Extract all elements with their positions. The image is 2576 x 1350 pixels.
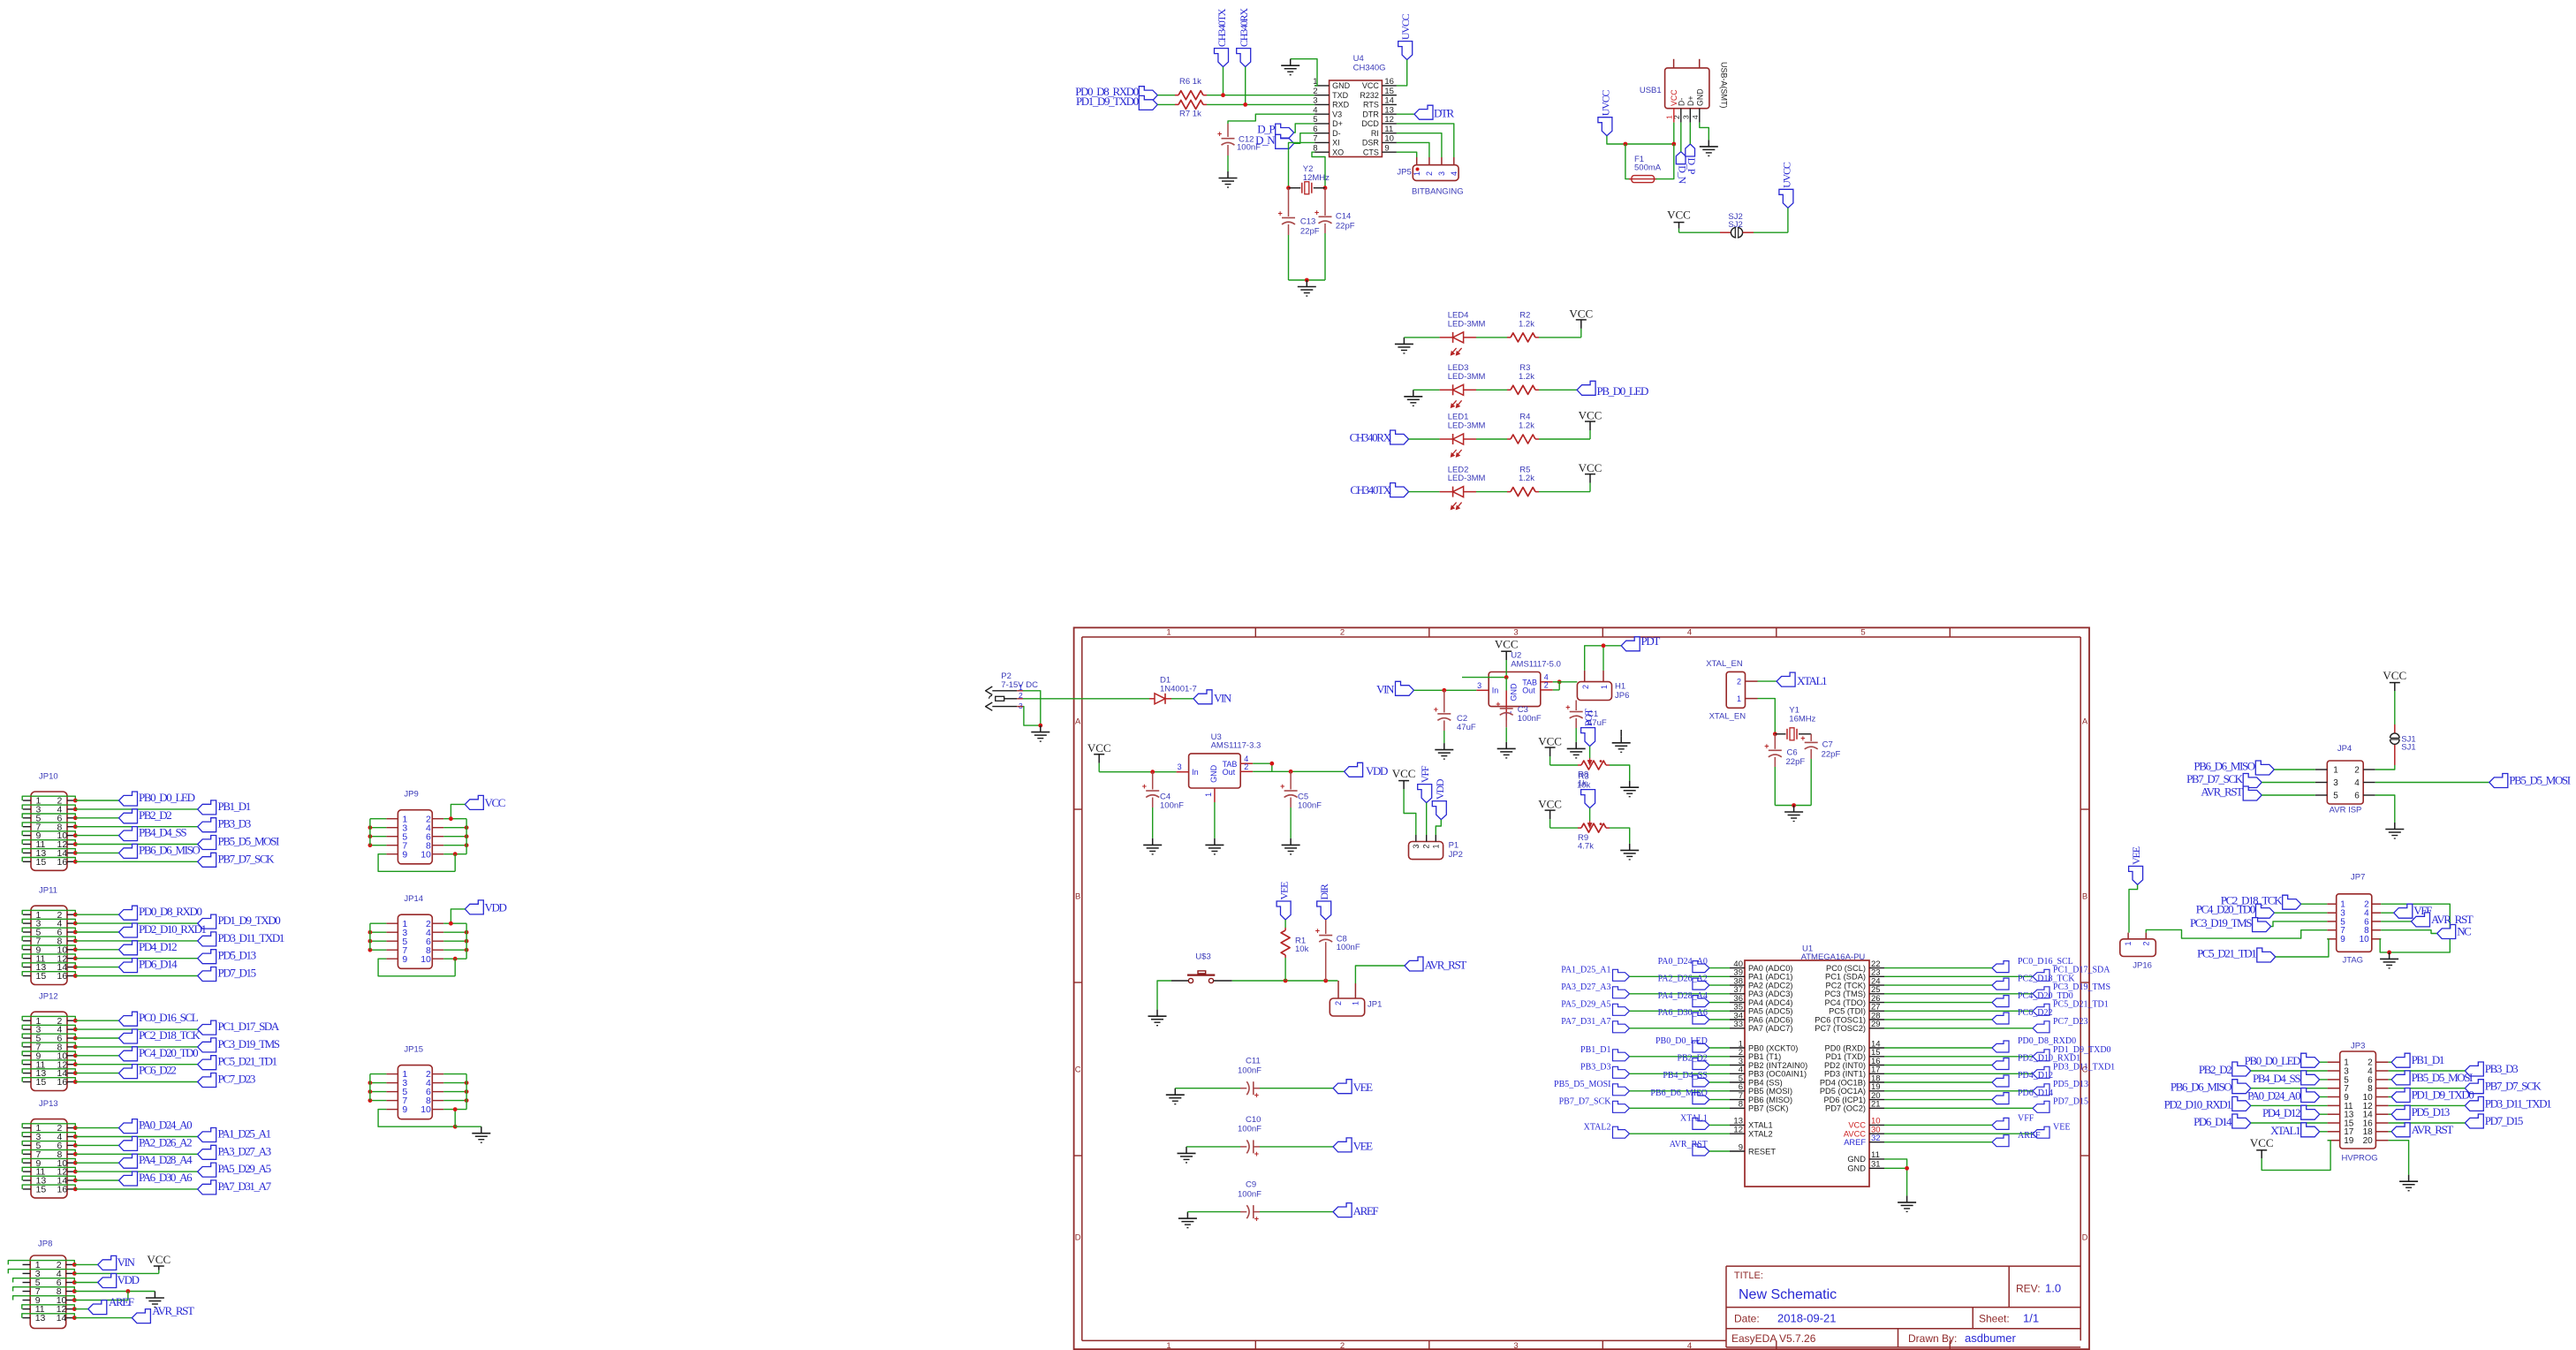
svg-text:VCC: VCC [1087, 741, 1111, 755]
svg-text:PA5_D29_A5: PA5_D29_A5 [1561, 1000, 1610, 1010]
svg-text:2: 2 [1244, 762, 1248, 771]
svg-text:JP15: JP15 [404, 1045, 423, 1055]
svg-text:9: 9 [402, 954, 407, 965]
svg-text:GND: GND [1332, 81, 1351, 90]
svg-text:PB0_D0_LED: PB0_D0_LED [139, 791, 195, 804]
svg-text:PB1_D1: PB1_D1 [218, 800, 251, 813]
svg-text:VDD: VDD [1434, 778, 1446, 800]
svg-text:PC6 (TOSC1): PC6 (TOSC1) [1815, 1015, 1866, 1024]
svg-text:PA2_D26_A2: PA2_D26_A2 [139, 1135, 192, 1149]
svg-text:B: B [1075, 892, 1080, 902]
svg-text:+: + [1254, 1149, 1259, 1158]
svg-text:VIN: VIN [1214, 691, 1232, 704]
svg-text:15: 15 [1384, 87, 1394, 96]
svg-text:GND: GND [1209, 764, 1218, 783]
svg-text:PB3 (OC0AIN1): PB3 (OC0AIN1) [1748, 1070, 1807, 1079]
svg-text:PD6_D14: PD6_D14 [2193, 1115, 2232, 1128]
svg-text:PD2_D10_RXD1: PD2_D10_RXD1 [139, 922, 207, 936]
svg-text:D_N: D_N [1255, 133, 1276, 147]
svg-text:1: 1 [1413, 171, 1421, 176]
svg-text:PB6_D6_MISO: PB6_D6_MISO [2193, 760, 2254, 773]
svg-text:XTAL2: XTAL2 [1584, 1122, 1611, 1132]
svg-text:PD6_D14: PD6_D14 [2018, 1088, 2053, 1098]
svg-text:LED-3MM: LED-3MM [1448, 320, 1486, 330]
svg-text:6: 6 [2354, 791, 2360, 800]
svg-text:3: 3 [1178, 762, 1182, 771]
svg-text:PC5_D21_TD1: PC5_D21_TD1 [2053, 1000, 2109, 1010]
svg-text:PD4_D12: PD4_D12 [2262, 1106, 2300, 1119]
svg-text:New Schematic: New Schematic [1739, 1287, 1837, 1302]
svg-text:XTAL1: XTAL1 [1797, 674, 1827, 687]
svg-text:VCC: VCC [1538, 798, 1562, 811]
svg-text:PA3 (ADC3): PA3 (ADC3) [1748, 990, 1792, 998]
svg-text:XTAL1: XTAL1 [2270, 1124, 2300, 1137]
svg-text:BITBANGING: BITBANGING [1412, 187, 1464, 197]
svg-text:TXD: TXD [1332, 91, 1349, 100]
svg-text:PDT: PDT [1641, 634, 1661, 648]
svg-text:HVPROG: HVPROG [2342, 1154, 2378, 1164]
svg-text:D_P: D_P [1686, 158, 1698, 175]
svg-text:PD7 (OC2): PD7 (OC2) [1825, 1104, 1866, 1113]
svg-text:VFF: VFF [2018, 1114, 2034, 1124]
svg-text:D: D [1075, 1233, 1081, 1243]
svg-text:TITLE:: TITLE: [1734, 1270, 1763, 1281]
svg-text:PB7_D7_SCK: PB7_D7_SCK [218, 852, 276, 865]
svg-text:PB7 (SCK): PB7 (SCK) [1748, 1104, 1788, 1113]
svg-text:2018-09-21: 2018-09-21 [1777, 1312, 1837, 1325]
svg-text:2: 2 [2354, 765, 2360, 775]
svg-text:PA0_D24_A0: PA0_D24_A0 [139, 1119, 192, 1132]
svg-text:PA4_D28_A4: PA4_D28_A4 [1658, 991, 1708, 1001]
svg-text:PB3_D3: PB3_D3 [218, 817, 251, 830]
svg-text:10: 10 [1384, 134, 1394, 144]
svg-text:JP1: JP1 [1368, 999, 1382, 1009]
svg-text:PA1_D25_A1: PA1_D25_A1 [218, 1127, 271, 1141]
svg-text:3: 3 [1477, 681, 1481, 690]
svg-text:PD7_D15: PD7_D15 [2485, 1114, 2523, 1127]
svg-text:CH340TX: CH340TX [1350, 483, 1391, 497]
svg-text:JP5: JP5 [1397, 168, 1411, 178]
svg-text:CH340G: CH340G [1353, 64, 1386, 73]
svg-text:PB2_D2: PB2_D2 [1677, 1054, 1707, 1064]
svg-text:100nF: 100nF [1337, 943, 1360, 952]
svg-text:VCC: VCC [1569, 307, 1593, 320]
svg-text:LED-3MM: LED-3MM [1448, 421, 1486, 431]
svg-text:D+: D+ [1332, 119, 1343, 128]
svg-text:32: 32 [1871, 1134, 1881, 1143]
svg-text:VCC: VCC [1579, 461, 1602, 474]
svg-text:4: 4 [2354, 778, 2360, 788]
svg-text:2: 2 [1425, 171, 1434, 176]
svg-text:VCC: VCC [147, 1253, 170, 1266]
svg-text:4: 4 [1687, 627, 1692, 637]
svg-text:2: 2 [1340, 1341, 1345, 1350]
svg-text:PB4_D4_SS: PB4_D4_SS [2253, 1072, 2300, 1085]
svg-text:10: 10 [420, 849, 431, 860]
svg-text:PA1_D25_A1: PA1_D25_A1 [1561, 966, 1610, 975]
svg-text:12: 12 [1733, 1126, 1743, 1135]
svg-text:PA7 (ADC7): PA7 (ADC7) [1748, 1024, 1792, 1033]
svg-text:AVR_RST: AVR_RST [1670, 1140, 1708, 1149]
svg-text:3: 3 [1513, 627, 1518, 637]
svg-text:16: 16 [57, 1185, 68, 1195]
svg-text:XTAL_EN: XTAL_EN [1709, 712, 1746, 722]
svg-text:1: 1 [1166, 627, 1171, 637]
svg-text:GND: GND [1847, 1164, 1866, 1173]
svg-text:100nF: 100nF [1238, 1125, 1261, 1134]
svg-text:15: 15 [36, 971, 47, 982]
svg-text:4: 4 [1691, 115, 1700, 119]
svg-text:JP16: JP16 [2133, 961, 2152, 971]
svg-text:DTR: DTR [1434, 106, 1455, 119]
svg-text:+: + [1764, 741, 1769, 750]
svg-text:PD2_D10_RXD1: PD2_D10_RXD1 [2164, 1097, 2232, 1111]
svg-text:PC2 (TCK): PC2 (TCK) [1826, 981, 1866, 990]
svg-text:16: 16 [57, 857, 68, 868]
svg-text:1: 1 [2124, 941, 2133, 945]
svg-text:C13: C13 [1300, 216, 1315, 226]
svg-text:PC7_D23: PC7_D23 [218, 1073, 255, 1086]
svg-text:AVR_RST: AVR_RST [2201, 785, 2243, 799]
svg-text:1N4001-7: 1N4001-7 [1160, 685, 1197, 694]
svg-text:2: 2 [1334, 1001, 1343, 1005]
svg-text:5: 5 [2333, 791, 2338, 800]
svg-text:3: 3 [2333, 778, 2338, 788]
svg-text:AREF: AREF [109, 1295, 134, 1308]
svg-text:PC5_D21_TD1: PC5_D21_TD1 [2197, 947, 2256, 960]
svg-text:C9: C9 [1246, 1180, 1256, 1190]
svg-text:+: + [1496, 700, 1500, 709]
svg-text:PC3_D19_TMS: PC3_D19_TMS [218, 1037, 280, 1050]
svg-text:PB2_D2: PB2_D2 [2199, 1063, 2231, 1076]
svg-text:4: 4 [1687, 1341, 1692, 1350]
svg-text:D+: D+ [1686, 96, 1695, 107]
svg-text:22pF: 22pF [1300, 226, 1320, 236]
svg-text:PD6_D14: PD6_D14 [139, 958, 178, 971]
svg-text:10k: 10k [1295, 944, 1309, 954]
svg-text:2: 2 [1581, 685, 1590, 689]
svg-text:PA3_D27_A3: PA3_D27_A3 [218, 1144, 271, 1157]
svg-text:PC0 (SCL): PC0 (SCL) [1826, 964, 1866, 973]
svg-text:Drawn By:: Drawn By: [1908, 1332, 1957, 1345]
svg-text:PA2_D26_A2: PA2_D26_A2 [1658, 974, 1708, 983]
svg-text:D-: D- [1677, 98, 1686, 106]
svg-text:PC7_D23: PC7_D23 [2053, 1017, 2087, 1027]
svg-text:PA3_D27_A3: PA3_D27_A3 [1561, 982, 1610, 992]
svg-text:VDD: VDD [117, 1273, 140, 1286]
svg-text:asdbumer: asdbumer [1965, 1331, 2016, 1345]
svg-text:XTAL1: XTAL1 [1680, 1114, 1708, 1124]
svg-text:GND: GND [1695, 88, 1704, 106]
svg-text:PD0 (RXD): PD0 (RXD) [1825, 1043, 1867, 1052]
svg-text:PB2_D2: PB2_D2 [139, 808, 171, 822]
svg-text:JP14: JP14 [404, 894, 423, 904]
svg-text:9: 9 [2340, 935, 2345, 944]
svg-text:VCC: VCC [1495, 638, 1519, 651]
svg-text:PA6_D30_A6: PA6_D30_A6 [1658, 1008, 1708, 1018]
svg-text:PC6_D22: PC6_D22 [2018, 1008, 2052, 1018]
svg-text:PB0_D0_LED: PB0_D0_LED [2245, 1054, 2301, 1067]
svg-text:+: + [1254, 1091, 1259, 1100]
svg-text:PA6_D30_A6: PA6_D30_A6 [139, 1171, 193, 1184]
svg-text:20: 20 [2363, 1136, 2374, 1146]
svg-text:VIN: VIN [117, 1255, 136, 1269]
svg-text:USB-A(SMT): USB-A(SMT) [1719, 62, 1728, 109]
svg-text:USB1: USB1 [1640, 86, 1662, 95]
svg-text:RXD: RXD [1332, 101, 1350, 110]
svg-text:JP3: JP3 [2351, 1041, 2365, 1050]
svg-text:PD3_D11_TXD1: PD3_D11_TXD1 [2053, 1063, 2115, 1073]
svg-text:JP13: JP13 [39, 1099, 58, 1109]
svg-text:VEE: VEE [2130, 846, 2142, 865]
svg-text:10: 10 [420, 1104, 431, 1115]
svg-text:PB4_D4_SS: PB4_D4_SS [139, 826, 186, 839]
svg-text:4.7k: 4.7k [1578, 842, 1594, 852]
svg-text:PB5_D5_MOSI: PB5_D5_MOSI [1554, 1080, 1610, 1089]
svg-text:PD1_D9_TXD0: PD1_D9_TXD0 [2412, 1088, 2474, 1102]
svg-text:PB7_D7_SCK: PB7_D7_SCK [2186, 772, 2244, 785]
svg-text:PC3_D19_TMS: PC3_D19_TMS [2190, 916, 2252, 929]
svg-text:+: + [1280, 782, 1284, 791]
svg-text:PB5_D5_MOSI: PB5_D5_MOSI [2412, 1071, 2473, 1084]
svg-text:47uF: 47uF [1457, 723, 1476, 732]
svg-text:PD5 (OC1A): PD5 (OC1A) [1820, 1087, 1866, 1096]
svg-text:+: + [1254, 1215, 1259, 1224]
svg-text:PA0_D24_A0: PA0_D24_A0 [1658, 957, 1708, 967]
svg-text:SJ1: SJ1 [2401, 743, 2415, 753]
svg-text:1.2k: 1.2k [1519, 372, 1534, 382]
svg-text:R232: R232 [1360, 91, 1379, 100]
svg-text:22pF: 22pF [1336, 221, 1355, 231]
svg-text:PC0_D16_SCL: PC0_D16_SCL [139, 1011, 199, 1024]
svg-text:AVR ISP: AVR ISP [2330, 806, 2362, 815]
svg-text:100nF: 100nF [1160, 800, 1184, 810]
svg-text:3: 3 [1019, 702, 1023, 710]
svg-text:PD4 (OC1B): PD4 (OC1B) [1820, 1078, 1866, 1087]
svg-text:29: 29 [1871, 1020, 1881, 1029]
svg-text:4: 4 [1450, 171, 1458, 176]
svg-text:1.2k: 1.2k [1519, 320, 1534, 330]
svg-text:3: 3 [1513, 1341, 1518, 1350]
svg-text:12MHz: 12MHz [1303, 173, 1330, 183]
svg-text:PC2_D18_TCK: PC2_D18_TCK [139, 1028, 201, 1042]
svg-text:1/1: 1/1 [2023, 1312, 2039, 1325]
svg-text:JP12: JP12 [39, 992, 58, 1002]
svg-text:PD1_D9_TXD0: PD1_D9_TXD0 [1076, 95, 1139, 108]
svg-text:16: 16 [1384, 77, 1394, 87]
svg-text:JP8: JP8 [38, 1240, 52, 1249]
svg-text:100nF: 100nF [1518, 714, 1542, 724]
svg-text:PB5 (MOSI): PB5 (MOSI) [1748, 1087, 1792, 1096]
svg-text:AMS1117-3.3: AMS1117-3.3 [1211, 741, 1261, 751]
svg-text:VFF: VFF [1419, 765, 1431, 783]
svg-text:9: 9 [402, 1104, 407, 1115]
svg-text:PA1 (ADC1): PA1 (ADC1) [1748, 973, 1792, 982]
svg-text:CTS: CTS [1363, 148, 1379, 156]
svg-text:16: 16 [57, 971, 68, 982]
svg-text:100nF: 100nF [1298, 800, 1322, 810]
svg-text:PB7_D7_SCK: PB7_D7_SCK [2485, 1080, 2542, 1093]
svg-text:PB0 (XCKT0): PB0 (XCKT0) [1748, 1043, 1798, 1052]
svg-text:GND: GND [1510, 683, 1519, 702]
svg-text:PB3_D3: PB3_D3 [2485, 1062, 2518, 1075]
svg-text:13: 13 [35, 1313, 46, 1323]
svg-text:VEE: VEE [1353, 1139, 1374, 1152]
svg-text:12: 12 [1384, 115, 1394, 125]
svg-text:PC6_D22: PC6_D22 [139, 1064, 176, 1077]
svg-text:3: 3 [1437, 171, 1446, 176]
svg-text:PC1_D17_SDA: PC1_D17_SDA [218, 1020, 280, 1033]
svg-text:PB0_D0_LED: PB0_D0_LED [1655, 1036, 1708, 1046]
svg-text:C14: C14 [1336, 211, 1351, 221]
svg-text:PC3 (TMS): PC3 (TMS) [1825, 990, 1867, 998]
svg-text:1: 1 [1600, 685, 1609, 689]
svg-text:PD5_D13: PD5_D13 [218, 949, 256, 962]
svg-text:31: 31 [1871, 1160, 1881, 1170]
svg-text:PB7_D7_SCK: PB7_D7_SCK [1559, 1097, 1612, 1107]
svg-text:C7: C7 [1822, 740, 1833, 750]
svg-text:PD4_D12: PD4_D12 [2018, 1071, 2053, 1081]
svg-text:RI: RI [1371, 129, 1379, 138]
svg-text:U4: U4 [1353, 54, 1364, 64]
svg-text:3: 3 [1681, 115, 1690, 119]
svg-text:AVCC: AVCC [1844, 1130, 1866, 1139]
svg-text:+: + [1434, 705, 1438, 714]
svg-text:16MHz: 16MHz [1789, 714, 1815, 724]
svg-text:PC1 (SDA): PC1 (SDA) [1825, 973, 1866, 982]
svg-text:100nF: 100nF [1238, 1189, 1261, 1199]
svg-text:ATMEGA16A-PU: ATMEGA16A-PU [1801, 952, 1866, 962]
svg-text:PB6_D6_MISO: PB6_D6_MISO [1650, 1088, 1707, 1098]
svg-text:PB1_D1: PB1_D1 [2412, 1053, 2444, 1066]
svg-text:1.2k: 1.2k [1519, 474, 1534, 483]
svg-text:VCC: VCC [1362, 81, 1380, 90]
svg-text:1: 1 [1351, 1001, 1360, 1005]
svg-text:3: 3 [1412, 844, 1421, 848]
svg-text:PD1 (TXD): PD1 (TXD) [1826, 1052, 1866, 1061]
svg-text:+: + [1217, 130, 1222, 139]
svg-text:PA4_D28_A4: PA4_D28_A4 [139, 1153, 193, 1166]
svg-text:PD3_D11_TXD1: PD3_D11_TXD1 [2485, 1096, 2551, 1110]
svg-text:15: 15 [36, 1185, 47, 1195]
svg-text:UVCC: UVCC [1399, 13, 1412, 40]
svg-text:JP10: JP10 [39, 772, 58, 782]
svg-text:AVR_RST: AVR_RST [152, 1304, 194, 1317]
svg-text:NC: NC [2457, 925, 2471, 938]
svg-text:LED-3MM: LED-3MM [1448, 372, 1486, 382]
svg-text:VEE: VEE [1353, 1081, 1374, 1094]
svg-text:+: + [1142, 782, 1147, 791]
svg-text:PB4_D4_SS: PB4_D4_SS [1663, 1071, 1708, 1081]
svg-text:PA7_D31_A7: PA7_D31_A7 [1561, 1017, 1610, 1027]
svg-text:AREF: AREF [1353, 1204, 1379, 1217]
svg-text:VEE: VEE [1278, 882, 1291, 900]
svg-text:PC4 (TDO): PC4 (TDO) [1825, 998, 1867, 1007]
svg-text:1: 1 [1166, 1341, 1171, 1350]
svg-text:11: 11 [1871, 1150, 1880, 1160]
svg-text:C10: C10 [1246, 1115, 1261, 1125]
svg-text:Out: Out [1223, 768, 1236, 777]
svg-text:VCC: VCC [1538, 735, 1562, 748]
svg-text:JP4: JP4 [2337, 744, 2352, 754]
svg-text:Out: Out [1522, 686, 1535, 695]
svg-text:10: 10 [420, 954, 431, 965]
svg-text:JP2: JP2 [1449, 850, 1463, 860]
svg-text:PB4 (SS): PB4 (SS) [1748, 1078, 1783, 1087]
svg-text:VCC: VCC [485, 796, 505, 809]
svg-text:H1: H1 [1615, 682, 1625, 692]
svg-text:In: In [1492, 686, 1499, 695]
svg-text:V3: V3 [1332, 110, 1342, 118]
svg-text:JP7: JP7 [2351, 873, 2365, 883]
svg-text:9: 9 [1739, 1142, 1743, 1152]
svg-text:9: 9 [402, 849, 407, 860]
svg-text:PB_D0_LED: PB_D0_LED [1597, 384, 1648, 398]
svg-text:JP9: JP9 [404, 790, 418, 800]
svg-text:XTAL_EN: XTAL_EN [1706, 659, 1743, 669]
svg-text:PA2 (ADC2): PA2 (ADC2) [1748, 981, 1792, 990]
svg-text:PB6_D6_MISO: PB6_D6_MISO [139, 843, 200, 856]
svg-text:PA0_D24_A0: PA0_D24_A0 [2247, 1089, 2300, 1103]
svg-text:PD2 (INT0): PD2 (INT0) [1824, 1061, 1866, 1070]
svg-text:SJ2: SJ2 [1728, 220, 1742, 230]
svg-text:1.0: 1.0 [2045, 1282, 2061, 1295]
svg-text:PD5_D13: PD5_D13 [2053, 1080, 2088, 1089]
svg-text:2: 2 [1422, 844, 1431, 848]
svg-text:VCC: VCC [2250, 1136, 2274, 1149]
svg-text:B: B [2082, 892, 2087, 902]
svg-text:PD6 (ICP1): PD6 (ICP1) [1823, 1096, 1866, 1104]
svg-text:XO: XO [1332, 148, 1344, 156]
svg-text:DIR: DIR [1318, 884, 1330, 899]
svg-text:CH340RX: CH340RX [1350, 431, 1392, 444]
svg-text:15: 15 [36, 857, 47, 868]
svg-text:R7 1k: R7 1k [1179, 110, 1201, 119]
svg-text:P1: P1 [1449, 841, 1459, 851]
svg-text:VIN: VIN [1376, 682, 1395, 695]
svg-text:PD7_D15: PD7_D15 [2053, 1097, 2088, 1107]
svg-text:PD4_D12: PD4_D12 [139, 940, 177, 953]
svg-text:PB1 (T1): PB1 (T1) [1748, 1052, 1781, 1061]
svg-text:RTS: RTS [1363, 101, 1379, 110]
svg-text:+: + [1315, 927, 1320, 936]
svg-text:9: 9 [1384, 143, 1389, 153]
svg-text:Sheet:: Sheet: [1979, 1313, 2010, 1325]
svg-text:VCC: VCC [1667, 209, 1691, 222]
svg-text:PA0 (ADC0): PA0 (ADC0) [1748, 964, 1792, 973]
svg-text:EasyEDA V5.7.26: EasyEDA V5.7.26 [1731, 1332, 1816, 1345]
svg-text:PB6 (MISO): PB6 (MISO) [1748, 1096, 1792, 1104]
svg-text:16: 16 [57, 1077, 68, 1088]
svg-text:PC4_D20_TD0: PC4_D20_TD0 [139, 1046, 198, 1059]
svg-text:PD0_D8_RXD0: PD0_D8_RXD0 [139, 905, 201, 918]
svg-text:2: 2 [2141, 941, 2150, 945]
svg-text:PA5_D29_A5: PA5_D29_A5 [218, 1162, 271, 1175]
svg-text:15: 15 [36, 1077, 47, 1088]
svg-text:VCC: VCC [1579, 409, 1602, 422]
svg-text:33: 33 [1733, 1020, 1743, 1029]
svg-text:U$3: U$3 [1195, 952, 1210, 961]
svg-text:+: + [1278, 209, 1283, 218]
svg-text:PC4_D20_TD0: PC4_D20_TD0 [2196, 903, 2255, 916]
svg-text:+: + [1565, 703, 1570, 712]
svg-text:In: In [1192, 768, 1199, 777]
svg-text:VCC: VCC [1392, 767, 1416, 780]
svg-text:D-: D- [1332, 129, 1341, 138]
svg-text:PA6 (ADC6): PA6 (ADC6) [1748, 1015, 1792, 1024]
svg-text:VDD: VDD [1366, 764, 1388, 777]
svg-text:VCC: VCC [1848, 1121, 1866, 1130]
